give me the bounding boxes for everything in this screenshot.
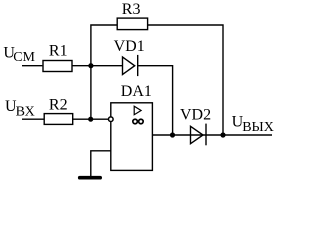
wire: R3 output to feedback corner, down to output node: [148, 25, 223, 135]
wire: Uvx input to R2: [22, 118, 44, 120]
resistor R2: [44, 114, 72, 125]
svg-text:R3: R3: [122, 1, 141, 18]
svg-text:R2: R2: [49, 96, 68, 113]
wire: Ucm input to R1: [22, 65, 42, 67]
node: summing junction: [88, 63, 93, 68]
op-amp DA1 body: [111, 103, 153, 171]
node: inverting input junction: [88, 117, 93, 122]
svg-text:R1: R1: [49, 42, 68, 59]
node: op-amp output junction: [170, 132, 175, 137]
wire: summing bus from R3 branch down to inverting input: [91, 25, 117, 119]
diode VD1: [123, 57, 135, 75]
resistor R1: [43, 61, 72, 72]
op-amp inversion circle on inverting input: [109, 117, 114, 122]
svg-text:DA1: DA1: [121, 83, 152, 100]
wire: R1 to VD1 anode through summing junction: [72, 65, 122, 67]
wire: op-amp output to Uvyx terminal: [152, 134, 272, 136]
diode VD2: [191, 126, 204, 143]
svg-text:СМ: СМ: [13, 50, 35, 65]
wire: VD1 cathode to op-amp output junction: [138, 66, 173, 135]
svg-text:ВЫХ: ВЫХ: [242, 120, 274, 135]
svg-text:VD2: VD2: [180, 106, 211, 123]
op-amp amplifier triangle symbol: [134, 106, 141, 115]
ground: [80, 176, 101, 180]
resistor R3: [117, 18, 147, 30]
svg-text:ВХ: ВХ: [16, 105, 35, 120]
node: output / feedback junction: [220, 132, 225, 137]
wire: non-inverting input to ground: [91, 151, 111, 177]
wire: R2 to inverting input: [73, 118, 109, 120]
svg-text:VD1: VD1: [114, 38, 145, 55]
op-amp infinity gain symbol: [133, 119, 143, 124]
